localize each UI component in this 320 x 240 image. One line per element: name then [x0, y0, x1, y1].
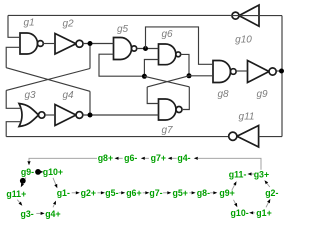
svg-text:g9-: g9-	[21, 167, 34, 177]
svg-text:g4+: g4+	[45, 209, 60, 219]
svg-text:g5+: g5+	[172, 188, 187, 198]
svg-text:g5-: g5-	[105, 188, 118, 198]
svg-text:g10+: g10+	[43, 167, 63, 177]
svg-text:g7-: g7-	[149, 188, 162, 198]
svg-text:g6+: g6+	[126, 188, 141, 198]
svg-text:g10-: g10-	[231, 208, 249, 218]
svg-text:g3+: g3+	[254, 169, 269, 179]
svg-text:g10: g10	[235, 35, 252, 46]
svg-text:g8-: g8-	[197, 188, 210, 198]
svg-text:g11-: g11-	[229, 169, 247, 179]
svg-text:g7+: g7+	[151, 153, 166, 163]
svg-text:g3: g3	[24, 90, 36, 101]
svg-text:g11: g11	[239, 112, 255, 123]
svg-text:g1+: g1+	[256, 208, 271, 218]
svg-text:g8: g8	[217, 89, 229, 100]
svg-text:g4: g4	[62, 90, 74, 101]
svg-text:g1: g1	[23, 18, 34, 29]
svg-text:g4-: g4-	[177, 153, 190, 163]
svg-text:g3-: g3-	[20, 209, 33, 219]
svg-text:g11+: g11+	[6, 189, 26, 199]
svg-text:g2-: g2-	[265, 188, 278, 198]
svg-text:g8+: g8+	[98, 153, 113, 163]
svg-text:g2+: g2+	[81, 188, 96, 198]
svg-text:g6: g6	[161, 29, 173, 40]
svg-text:g7: g7	[161, 125, 173, 136]
svg-text:g5: g5	[117, 24, 129, 35]
svg-text:g2: g2	[62, 19, 74, 30]
svg-text:g9: g9	[256, 89, 268, 100]
svg-text:g1-: g1-	[57, 188, 70, 198]
svg-text:g6-: g6-	[124, 153, 137, 163]
